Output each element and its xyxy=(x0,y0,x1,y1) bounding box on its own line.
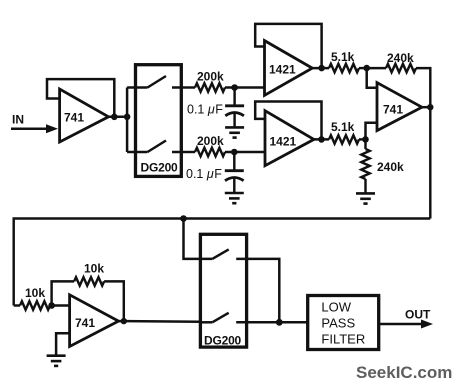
svg-text:5.1k: 5.1k xyxy=(331,50,355,64)
svg-text:OUT: OUT xyxy=(405,308,431,322)
svg-text:10k: 10k xyxy=(84,262,104,276)
svg-text:LOW: LOW xyxy=(321,299,351,314)
svg-text:741: 741 xyxy=(75,316,95,330)
svg-text:200k: 200k xyxy=(197,70,224,84)
svg-text:10k: 10k xyxy=(25,286,45,300)
svg-text:DG200: DG200 xyxy=(204,334,242,348)
svg-text:FILTER: FILTER xyxy=(321,332,365,347)
svg-text:PASS: PASS xyxy=(321,316,355,331)
svg-text:741: 741 xyxy=(383,103,403,117)
svg-text:5.1k: 5.1k xyxy=(331,120,355,134)
svg-text:IN: IN xyxy=(12,113,24,127)
svg-text:240k: 240k xyxy=(377,160,404,174)
svg-text:0.1 μF: 0.1 μF xyxy=(186,167,222,181)
svg-text:200k: 200k xyxy=(197,134,224,148)
svg-text:DG200: DG200 xyxy=(141,161,179,175)
svg-text:741: 741 xyxy=(64,111,84,125)
svg-text:1421: 1421 xyxy=(269,63,296,77)
svg-text:1421: 1421 xyxy=(270,135,297,149)
svg-text:240k: 240k xyxy=(387,51,414,65)
svg-text:SeekIC.com: SeekIC.com xyxy=(356,363,452,382)
svg-text:0.1 μF: 0.1 μF xyxy=(187,103,223,117)
